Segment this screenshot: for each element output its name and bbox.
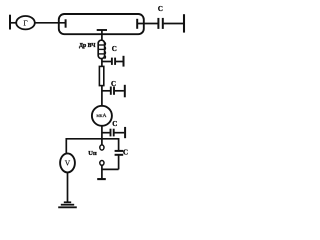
output terminal — [183, 14, 185, 32]
svg-text:V: V — [65, 159, 71, 168]
wire node to capacitor C3 — [102, 90, 110, 92]
wire choke to node — [101, 59, 103, 67]
capacitor C3 — [111, 85, 125, 98]
capacitor C1 — [158, 18, 162, 29]
ground — [58, 202, 77, 207]
wire node to capacitor C2 — [102, 61, 111, 63]
tuning stub — [97, 30, 107, 34]
microammeter — [92, 106, 112, 126]
left coupling probe — [65, 19, 67, 27]
svg-text:мкА: мкА — [96, 113, 106, 119]
capacitor C4 — [111, 127, 126, 138]
voltmeter — [60, 153, 75, 172]
label Dr VCh — [79, 43, 96, 49]
capacitor C5 — [115, 151, 124, 170]
label C3 — [111, 80, 116, 88]
chassis terminal bar — [97, 178, 106, 180]
label C4 — [112, 120, 117, 128]
wire resistor to microammeter — [101, 85, 103, 105]
svg-text:C: C — [158, 5, 163, 13]
wire microammeter to bus — [101, 126, 103, 146]
generator G — [16, 16, 35, 29]
resistor — [99, 66, 103, 85]
wire C1 to output terminal — [164, 23, 184, 25]
input terminal — [9, 15, 11, 30]
wire lower terminal to chassis — [101, 165, 103, 179]
right coupling probe — [136, 19, 138, 29]
svg-text:Г: Г — [23, 18, 28, 27]
svg-text:C: C — [112, 45, 117, 53]
cavity resonator — [59, 14, 144, 34]
label C1 — [158, 5, 163, 13]
wire cavity to choke — [101, 34, 103, 40]
RF choke Dr VCh — [98, 40, 105, 58]
supply bus wire — [66, 139, 118, 154]
svg-text:Uп: Uп — [88, 150, 97, 157]
wire terminal to generator — [10, 22, 17, 24]
svg-text:C: C — [111, 80, 116, 88]
terminal Up upper — [100, 145, 104, 150]
svg-text:C: C — [112, 120, 117, 128]
svg-text:Др ВЧ: Др ВЧ — [79, 43, 96, 49]
wire voltmeter to ground — [67, 172, 69, 201]
label C2 — [112, 45, 117, 53]
wire node to capacitor C4 — [102, 132, 110, 134]
wire to capacitor C5 bottom — [102, 168, 119, 170]
svg-text:C: C — [123, 149, 128, 157]
wire generator to cavity probe — [35, 22, 66, 24]
label C5 — [123, 149, 128, 157]
wire cavity to capacitor C1 — [137, 23, 157, 25]
terminal Up lower — [100, 161, 104, 166]
capacitor C2 — [112, 56, 124, 67]
label Up — [88, 150, 97, 157]
